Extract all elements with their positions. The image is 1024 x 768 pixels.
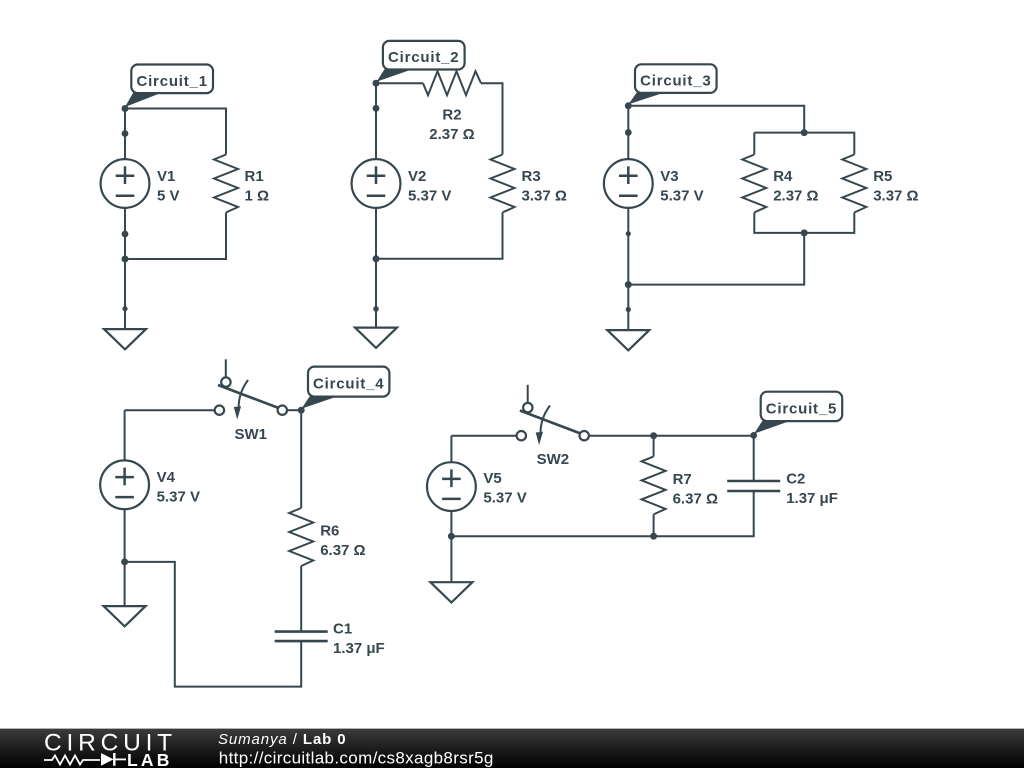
svg-text:Sumanya / Lab 0: Sumanya / Lab 0 <box>218 731 347 748</box>
svg-text:5.37 V: 5.37 V <box>408 187 451 204</box>
svg-text:V5: V5 <box>483 470 501 487</box>
svg-text:1 Ω: 1 Ω <box>245 187 270 204</box>
svg-text:5.37 V: 5.37 V <box>157 489 200 506</box>
svg-text:3.37 Ω: 3.37 Ω <box>522 187 567 204</box>
svg-text:Circuit_1: Circuit_1 <box>136 73 207 90</box>
svg-text:V4: V4 <box>157 469 176 486</box>
svg-text:Circuit_5: Circuit_5 <box>766 400 837 417</box>
svg-text:R6: R6 <box>320 523 339 540</box>
svg-text:R3: R3 <box>522 168 541 185</box>
svg-text:SW1: SW1 <box>234 426 267 443</box>
svg-text:SW2: SW2 <box>537 451 570 468</box>
svg-text:6.37 Ω: 6.37 Ω <box>320 542 365 559</box>
svg-text:LAB: LAB <box>127 750 173 768</box>
svg-text:R1: R1 <box>245 168 264 185</box>
svg-text:5.37 V: 5.37 V <box>660 187 703 204</box>
svg-text:R4: R4 <box>773 168 793 185</box>
svg-text:1.37 μF: 1.37 μF <box>786 490 838 507</box>
svg-text:Circuit_3: Circuit_3 <box>640 73 711 90</box>
svg-text:5.37 V: 5.37 V <box>483 490 526 507</box>
svg-text:Circuit_4: Circuit_4 <box>313 376 384 393</box>
svg-text:5 V: 5 V <box>157 187 180 204</box>
svg-text:1.37 μF: 1.37 μF <box>333 640 385 657</box>
svg-text:Circuit_2: Circuit_2 <box>388 49 459 66</box>
svg-text:2.37 Ω: 2.37 Ω <box>773 187 818 204</box>
svg-text:R2: R2 <box>442 106 461 123</box>
svg-text:3.37 Ω: 3.37 Ω <box>873 187 918 204</box>
svg-text:V1: V1 <box>157 168 175 185</box>
svg-text:2.37 Ω: 2.37 Ω <box>429 126 474 143</box>
svg-text:R5: R5 <box>873 168 892 185</box>
svg-text:http://circuitlab.com/cs8xagb8: http://circuitlab.com/cs8xagb8rsr5g <box>219 749 494 768</box>
svg-text:C1: C1 <box>333 620 352 637</box>
svg-text:R7: R7 <box>673 471 692 488</box>
svg-text:V2: V2 <box>408 168 426 185</box>
svg-text:C2: C2 <box>786 470 805 487</box>
svg-text:6.37 Ω: 6.37 Ω <box>673 490 718 507</box>
svg-text:V3: V3 <box>660 168 678 185</box>
